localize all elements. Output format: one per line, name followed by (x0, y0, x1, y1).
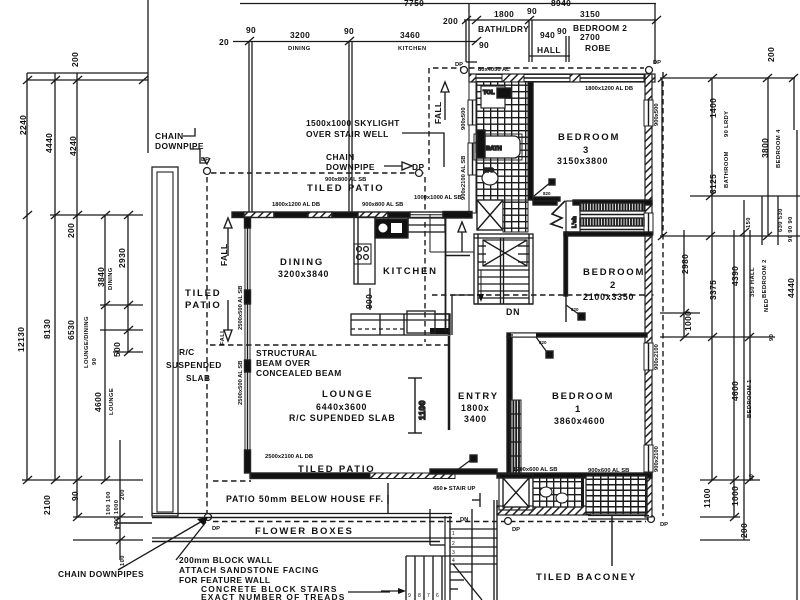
svg-text:WC: WC (484, 168, 494, 174)
kitchen counter L (354, 217, 375, 284)
bath tiles field (476, 82, 528, 200)
svg-text:6: 6 (436, 593, 439, 599)
svg-text:900x2100: 900x2100 (654, 344, 660, 370)
svg-text:1: 1 (452, 531, 455, 537)
svg-text:BEDROOM: BEDROOM (583, 267, 645, 278)
leader lines annotations (118, 128, 444, 592)
hall-kitchen divider wall (445, 218, 447, 332)
DP house top-right (646, 67, 653, 74)
svg-text:200: 200 (66, 223, 76, 238)
svg-text:940: 940 (540, 30, 555, 40)
svg-text:2980: 2980 (680, 254, 690, 274)
svg-text:6440x3600: 6440x3600 (316, 402, 367, 412)
DP balcony right (648, 516, 655, 523)
svg-text:90: 90 (70, 491, 80, 501)
DP circles (204, 67, 655, 525)
fall arrow left patio lower (227, 300, 229, 336)
svg-text:90: 90 (557, 26, 567, 36)
block wall arrow (176, 522, 206, 560)
tick near 200 top (472, 16, 481, 24)
svg-text:1000x1000 AL SB: 1000x1000 AL SB (414, 195, 462, 201)
svg-text:ENTRY: ENTRY (458, 391, 499, 402)
svg-text:1800: 1800 (494, 9, 514, 19)
svg-text:2100: 2100 (42, 495, 52, 515)
svg-text:90: 90 (344, 26, 354, 36)
svg-text:80x4050 AL: 80x4050 AL (478, 67, 510, 73)
svg-text:ROBE: ROBE (585, 43, 611, 53)
linen zigzag door (551, 201, 565, 228)
svg-text:150: 150 (746, 217, 752, 228)
svg-text:820: 820 (539, 340, 547, 345)
east exterior wall (hatched) (645, 74, 652, 517)
right ticks y196 (706, 192, 715, 200)
svg-text:8940: 8940 (551, 0, 571, 8)
stair enclosure (474, 234, 533, 304)
stair tread numbers (408, 531, 455, 599)
svg-text:BEDROOM 2: BEDROOM 2 (762, 259, 768, 298)
treads (478, 269, 529, 271)
svg-text:200: 200 (739, 523, 749, 538)
svg-text:630 530: 630 530 (778, 208, 784, 232)
bath/ldry lower dim line (466, 61, 477, 63)
svg-text:HALL: HALL (537, 45, 561, 55)
room name labels (185, 132, 645, 583)
ensuite tiles light (533, 478, 583, 507)
svg-text:TILED: TILED (185, 288, 221, 299)
bottom hline y517 (73, 516, 143, 518)
bench right leg (448, 314, 450, 335)
svg-text:DINING: DINING (280, 257, 324, 268)
svg-text:1800x: 1800x (461, 403, 489, 413)
svg-text:3200: 3200 (290, 30, 310, 40)
DP top patio right (416, 170, 423, 177)
right top hline y78 (660, 77, 795, 79)
lounge south wall / tiled patio bar (250, 473, 251, 479)
dashed vertical up to top eave (428, 68, 430, 170)
svg-text:3800: 3800 (760, 138, 770, 158)
svg-text:90: 90 (749, 474, 755, 481)
small stub above stairs (472, 499, 480, 501)
bath east wall / bed3 west wall (528, 82, 533, 200)
svg-text:TILED PATIO: TILED PATIO (298, 464, 376, 475)
dashed eave left patio vertical (206, 177, 208, 514)
svg-text:1000: 1000 (730, 486, 740, 506)
tick hline y305 (100, 304, 143, 306)
svg-text:BEDROOM: BEDROOM (552, 391, 614, 402)
tick marks top right dim (462, 16, 471, 24)
DP house top-left (461, 67, 468, 74)
landing X box (483, 240, 527, 266)
bed1 robe band (510, 400, 521, 473)
left vertical dim lines (26, 73, 28, 480)
FALL arrows (224, 82, 466, 341)
svg-text:200: 200 (766, 47, 776, 62)
svg-text:1400: 1400 (708, 98, 718, 118)
svg-text:L'ch: L'ch (572, 216, 578, 228)
svg-text:FLOWER BOXES: FLOWER BOXES (255, 526, 354, 537)
DP balcony left (505, 518, 512, 525)
hob 4 burners (354, 244, 371, 264)
svg-text:2500x500 AL SB: 2500x500 AL SB (238, 286, 244, 330)
island bench (351, 314, 450, 335)
svg-text:1500x1000 SKYLIGHT: 1500x1000 SKYLIGHT (306, 118, 400, 128)
balcony edge double line (588, 515, 649, 517)
arrow (381, 590, 404, 592)
svg-text:820: 820 (571, 307, 579, 312)
DP top-left patio (204, 168, 211, 175)
svg-text:BEDROOM 4: BEDROOM 4 (776, 129, 782, 168)
hline y236 segment (660, 235, 800, 237)
svg-text:9: 9 (408, 593, 411, 599)
left top double hline (27, 72, 148, 74)
hline y313 segment (660, 312, 700, 314)
svg-text:R/C: R/C (179, 347, 195, 357)
west wall of bath block (469, 82, 476, 213)
svg-text:1100: 1100 (702, 488, 712, 508)
bath/ldry north wall (hatched with windows) (469, 74, 655, 82)
svg-text:R/C SUPENDED SLAB: R/C SUPENDED SLAB (289, 413, 395, 423)
shower X box bottom (503, 478, 529, 507)
svg-text:7: 7 (427, 593, 430, 599)
bed3 south wall (533, 200, 557, 205)
svg-text:CONCEALED BEAM: CONCEALED BEAM (256, 368, 342, 378)
right vlines (661, 78, 663, 236)
svg-text:2500x2100 AL DB: 2500x2100 AL DB (265, 454, 313, 460)
window size labels (265, 67, 633, 492)
bed1 door opening + swing (511, 334, 536, 337)
svg-text:2100x3350: 2100x3350 (583, 292, 634, 302)
svg-text:8130: 8130 (42, 319, 52, 339)
svg-text:20: 20 (219, 37, 229, 47)
svg-text:DP: DP (212, 526, 220, 532)
svg-text:2700: 2700 (580, 32, 600, 42)
entry front door swing (456, 459, 472, 471)
lounge/entry south opening wall (430, 469, 497, 474)
dashed section line mid (432, 294, 656, 296)
svg-text:DN: DN (460, 517, 468, 523)
svg-text:3: 3 (583, 145, 590, 156)
svg-text:6530: 6530 (66, 320, 76, 340)
svg-text:DINING: DINING (108, 267, 114, 290)
bath tub (476, 136, 520, 158)
svg-text:DP: DP (653, 60, 661, 66)
entry landing walls (429, 509, 431, 545)
svg-text:200mm BLOCK WALL: 200mm BLOCK WALL (179, 555, 272, 565)
svg-text:SLAB: SLAB (186, 373, 210, 383)
svg-text:STRUCTURAL: STRUCTURAL (256, 348, 317, 358)
svg-text:4600: 4600 (93, 392, 103, 412)
dashed top eave over bedrooms (433, 67, 644, 69)
chain downpipe top-left bracket (183, 128, 195, 136)
ensuite/balcony south wall hatched (497, 506, 590, 515)
svg-text:7750: 7750 (404, 0, 424, 8)
svg-text:90: 90 (92, 358, 98, 365)
svg-text:TOL: TOL (483, 90, 495, 96)
svg-text:3150x3800: 3150x3800 (557, 156, 608, 166)
svg-text:4390: 4390 (730, 266, 740, 286)
svg-text:200: 200 (443, 16, 458, 26)
svg-text:DP: DP (660, 522, 668, 528)
svg-text:DP: DP (455, 62, 463, 68)
svg-text:2: 2 (610, 280, 617, 291)
hall dim line (529, 55, 570, 57)
svg-text:90: 90 (246, 25, 256, 35)
sink bench right of stove (408, 218, 445, 232)
annotation texts (58, 118, 424, 600)
svg-text:BATHROOM: BATHROOM (724, 151, 730, 188)
svg-text:BEAM OVER: BEAM OVER (256, 358, 310, 368)
rotated window labels (238, 103, 660, 472)
svg-text:CHAIN DOWNPIPES: CHAIN DOWNPIPES (58, 569, 144, 579)
ticks left top dim (245, 37, 254, 45)
svg-text:900x2100 AL SB: 900x2100 AL SB (461, 156, 467, 200)
chain downpipes bottom arrow (118, 520, 204, 570)
diagonal (453, 564, 482, 600)
vertical dim doubles top (248, 41, 250, 213)
svg-text:900x800 AL SB: 900x800 AL SB (362, 202, 403, 208)
tick hline y330 (100, 329, 143, 331)
svg-text:OVER STAIR WELL: OVER STAIR WELL (306, 129, 389, 139)
svg-text:90: 90 (527, 6, 537, 16)
left hall return wall (430, 251, 474, 253)
svg-text:EXACT NUMBER OF TREADS: EXACT NUMBER OF TREADS (201, 592, 346, 600)
svg-text:NED: NED (764, 299, 770, 312)
svg-text:900x800 AL SB: 900x800 AL SB (325, 177, 366, 183)
svg-text:3400: 3400 (464, 414, 487, 424)
svg-text:4440: 4440 (786, 278, 796, 298)
svg-text:3840: 3840 (96, 267, 106, 287)
svg-text:900x2100: 900x2100 (654, 446, 660, 472)
patio south hatched section (370, 473, 455, 479)
svg-text:BEDROOM 1: BEDROOM 1 (747, 379, 753, 418)
svg-text:900x500: 900x500 (461, 107, 467, 130)
svg-text:KITCHEN: KITCHEN (383, 266, 438, 277)
shower box (477, 200, 503, 230)
top dimension texts (219, 0, 627, 55)
fall arrow kitchen patio (461, 226, 463, 252)
basin circle (482, 171, 498, 185)
arrow down (480, 270, 482, 296)
dashed kitchen vertical (424, 177, 426, 342)
bed1 north wall (507, 333, 647, 337)
svg-text:200: 200 (70, 52, 80, 67)
left dimension rotated texts (16, 52, 127, 566)
svg-text:CHAIN: CHAIN (326, 152, 355, 162)
svg-text:1800x1200 AL DB: 1800x1200 AL DB (585, 86, 633, 92)
entry dim bracket 1100 (414, 378, 416, 433)
dashed patio bottom left stub (213, 480, 251, 482)
top dim line second (right) (464, 19, 657, 21)
mid tick hline y215 (50, 214, 143, 216)
svg-text:3375: 3375 (708, 280, 718, 300)
door width 820 labels (539, 191, 579, 345)
svg-text:4600: 4600 (730, 381, 740, 401)
svg-text:900x500: 900x500 (654, 103, 660, 126)
svg-text:200: 200 (120, 489, 126, 500)
bed3 door swing (534, 182, 551, 196)
svg-text:500: 500 (112, 342, 122, 357)
north wall dining/kitchen (windows band) (232, 212, 472, 218)
svg-text:TILED PATIO: TILED PATIO (307, 183, 385, 194)
svg-text:8: 8 (418, 593, 421, 599)
stove black (375, 219, 408, 238)
svg-text:3460: 3460 (400, 30, 420, 40)
svg-text:BEDROOM: BEDROOM (558, 132, 620, 143)
svg-text:1: 1 (575, 404, 582, 415)
hline y196 segment (690, 195, 800, 197)
svg-text:DP: DP (512, 527, 520, 533)
900 dim bracket kitchen (369, 288, 371, 310)
svg-text:90: 90 (479, 40, 489, 50)
svg-text:1000: 1000 (683, 311, 693, 331)
svg-text:DOWNPIPE: DOWNPIPE (326, 162, 375, 172)
svg-text:3: 3 (452, 550, 455, 556)
west wall dining/lounge (window wall) (245, 217, 250, 473)
concrete stairs arrow (348, 591, 390, 593)
bottom hline y540 (73, 539, 143, 541)
svg-text:FALL: FALL (219, 243, 229, 266)
leader vline patio text (387, 483, 389, 514)
svg-text:3150: 3150 (580, 9, 600, 19)
hline y337 segment (660, 336, 775, 338)
dashed eave top patio horizontal (211, 172, 424, 174)
FALL labels (219, 101, 443, 345)
svg-text:4440: 4440 (44, 133, 54, 153)
svg-text:12130: 12130 (16, 327, 26, 352)
svg-text:90: 90 (769, 334, 775, 341)
svg-text:LOUNGE/DINING: LOUNGE/DINING (84, 316, 90, 368)
svg-text:4240: 4240 (68, 136, 78, 156)
svg-text:1800x1200 AL DB: 1800x1200 AL DB (272, 202, 320, 208)
svg-text:BATH: BATH (486, 146, 502, 152)
svg-text:1100: 1100 (417, 400, 427, 420)
svg-text:90 90 90: 90 90 90 (788, 216, 794, 242)
svg-text:2240: 2240 (18, 115, 28, 135)
balcony leader vline (611, 516, 613, 566)
treads right flight (450, 528, 497, 530)
tick hline y352 (113, 351, 143, 353)
chain downpipe arrow top (384, 165, 402, 167)
skylight leader (402, 133, 444, 167)
svg-text:DN: DN (506, 307, 520, 317)
bottom hline y480 (22, 479, 143, 481)
fall arrow left patio upper (227, 222, 229, 256)
balcony dense tiles (586, 476, 647, 514)
svg-text:CHAIN: CHAIN (155, 131, 184, 141)
patio slab south edge bar (251, 473, 370, 479)
top dim line third (left) (233, 41, 477, 43)
left flower-box wall (long double rectangle) (152, 167, 178, 516)
svg-text:KITCHEN: KITCHEN (398, 46, 427, 52)
svg-text:DINING: DINING (288, 46, 311, 52)
svg-text:FALL: FALL (433, 101, 443, 124)
svg-text:TILED BACONEY: TILED BACONEY (536, 572, 637, 583)
toilet room box (481, 86, 505, 108)
dashed structural beam line (210, 344, 449, 346)
svg-text:4: 4 (452, 558, 455, 564)
room dimension labels (226, 156, 634, 504)
svg-text:90: 90 (724, 130, 730, 137)
svg-text:3200x3840: 3200x3840 (278, 269, 329, 279)
robe comb strips bed2 (580, 203, 644, 211)
svg-text:PATIO: PATIO (185, 300, 222, 311)
svg-text:ATTACH SANDSTONE FACING: ATTACH SANDSTONE FACING (179, 565, 319, 575)
DP labels (201, 60, 668, 533)
svg-text:100 100: 100 100 (106, 491, 112, 515)
bed2 west wall (564, 232, 568, 296)
bed2 door swing (566, 305, 584, 318)
svg-text:BATH/LDRY: BATH/LDRY (478, 24, 529, 34)
svg-text:900: 900 (364, 294, 374, 309)
left flight verticals (405, 556, 407, 600)
cistern (497, 88, 511, 98)
svg-text:1200x600 AL SB: 1200x600 AL SB (513, 467, 557, 473)
svg-text:900x600 AL SB: 900x600 AL SB (588, 468, 629, 474)
svg-text:350 HALL: 350 HALL (750, 267, 756, 297)
svg-text:PATIO 50mm BELOW HOUSE FF.: PATIO 50mm BELOW HOUSE FF. (226, 494, 384, 504)
divider (582, 476, 584, 507)
bed1 west wall (507, 337, 512, 473)
entry east wall stub (448, 336, 451, 430)
dashed balcony bottom (213, 521, 646, 523)
svg-text:LRDY: LRDY (724, 111, 730, 128)
top overall dim line (240, 3, 656, 5)
dashed right eave vertical (662, 72, 664, 516)
svg-text:LOUNGE: LOUNGE (322, 389, 373, 400)
fall arrow top patio (444, 86, 446, 120)
dark heater box (477, 130, 485, 158)
svg-text:100: 100 (120, 555, 126, 566)
svg-text:2500x500 AL SB: 2500x500 AL SB (238, 361, 244, 405)
hline y480 segment (700, 479, 760, 481)
svg-text:2930: 2930 (117, 248, 127, 268)
svg-text:LOUNGE: LOUNGE (109, 388, 115, 415)
patio leader text line (387, 495, 389, 504)
hall wall bar (533, 197, 560, 201)
hline y517 segment (700, 516, 740, 518)
stair upper flight (444, 516, 446, 600)
svg-text:2: 2 (452, 541, 455, 547)
svg-text:3860x4600: 3860x4600 (554, 416, 605, 426)
bed1 south wall / ensuite north (497, 473, 652, 478)
svg-text:820: 820 (543, 191, 551, 196)
svg-text:SUSPENDED: SUSPENDED (166, 360, 222, 370)
svg-text:450 ▸ STAIR UP: 450 ▸ STAIR UP (433, 486, 476, 492)
tiles right of shower (503, 200, 528, 232)
right dimension rotated texts (680, 47, 796, 538)
DP bottom-left patio (205, 514, 212, 521)
flower box bottom band lines (152, 513, 452, 515)
bed2 north wall (564, 232, 652, 236)
svg-text:FALL: FALL (220, 329, 226, 345)
hline y540 segment (700, 539, 750, 541)
sink area vertical from wall (452, 294, 470, 296)
svg-text:3125: 3125 (708, 174, 718, 194)
svg-text:DP: DP (412, 162, 424, 172)
